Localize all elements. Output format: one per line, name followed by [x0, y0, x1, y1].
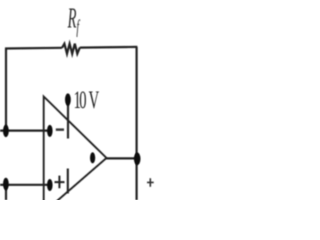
wire: left vertical feedback wire: [5, 48, 7, 131]
op-amp U1 triangle: [44, 97, 107, 213]
label: minus sign of op-amp inverting input: [56, 128, 64, 131]
wire: top feedback wire right lead: [80, 46, 138, 49]
wire: noninverting input wire: [0, 184, 50, 186]
label: 10 V: [74, 87, 100, 114]
wire: top feedback wire left lead: [5, 47, 62, 50]
node: +10V supply dot: [65, 93, 71, 105]
node: noninverting input pin dot: [47, 179, 53, 191]
wire: output wire from apex to node: [106, 157, 138, 159]
wire: negative supply pin: [67, 169, 69, 194]
node: lower-left terminal junction dot: [3, 178, 9, 190]
wire: +10V supply pin: [67, 100, 69, 139]
wire: lower-left terminal stub going down: [5, 185, 7, 201]
node: inverting input pin dot: [47, 125, 53, 137]
node: output pin dot inside triangle: [90, 152, 95, 163]
wire: inverting input wire: [0, 130, 50, 132]
label: plus sign of op-amp noninverting input: [55, 176, 65, 189]
node: output node dot on right rail: [134, 153, 141, 166]
svg-text:V: V: [89, 87, 100, 114]
label: output polarity plus sign: [147, 178, 154, 187]
node: junction dot at feedback / inverting input: [3, 125, 9, 137]
svg-text:0: 0: [79, 87, 86, 114]
resistor R1 (Rf zigzag): [62, 44, 80, 54]
wire: right vertical (output rail): [136, 47, 138, 200]
label: Rf: [67, 2, 80, 38]
svg-text:R: R: [67, 2, 76, 34]
